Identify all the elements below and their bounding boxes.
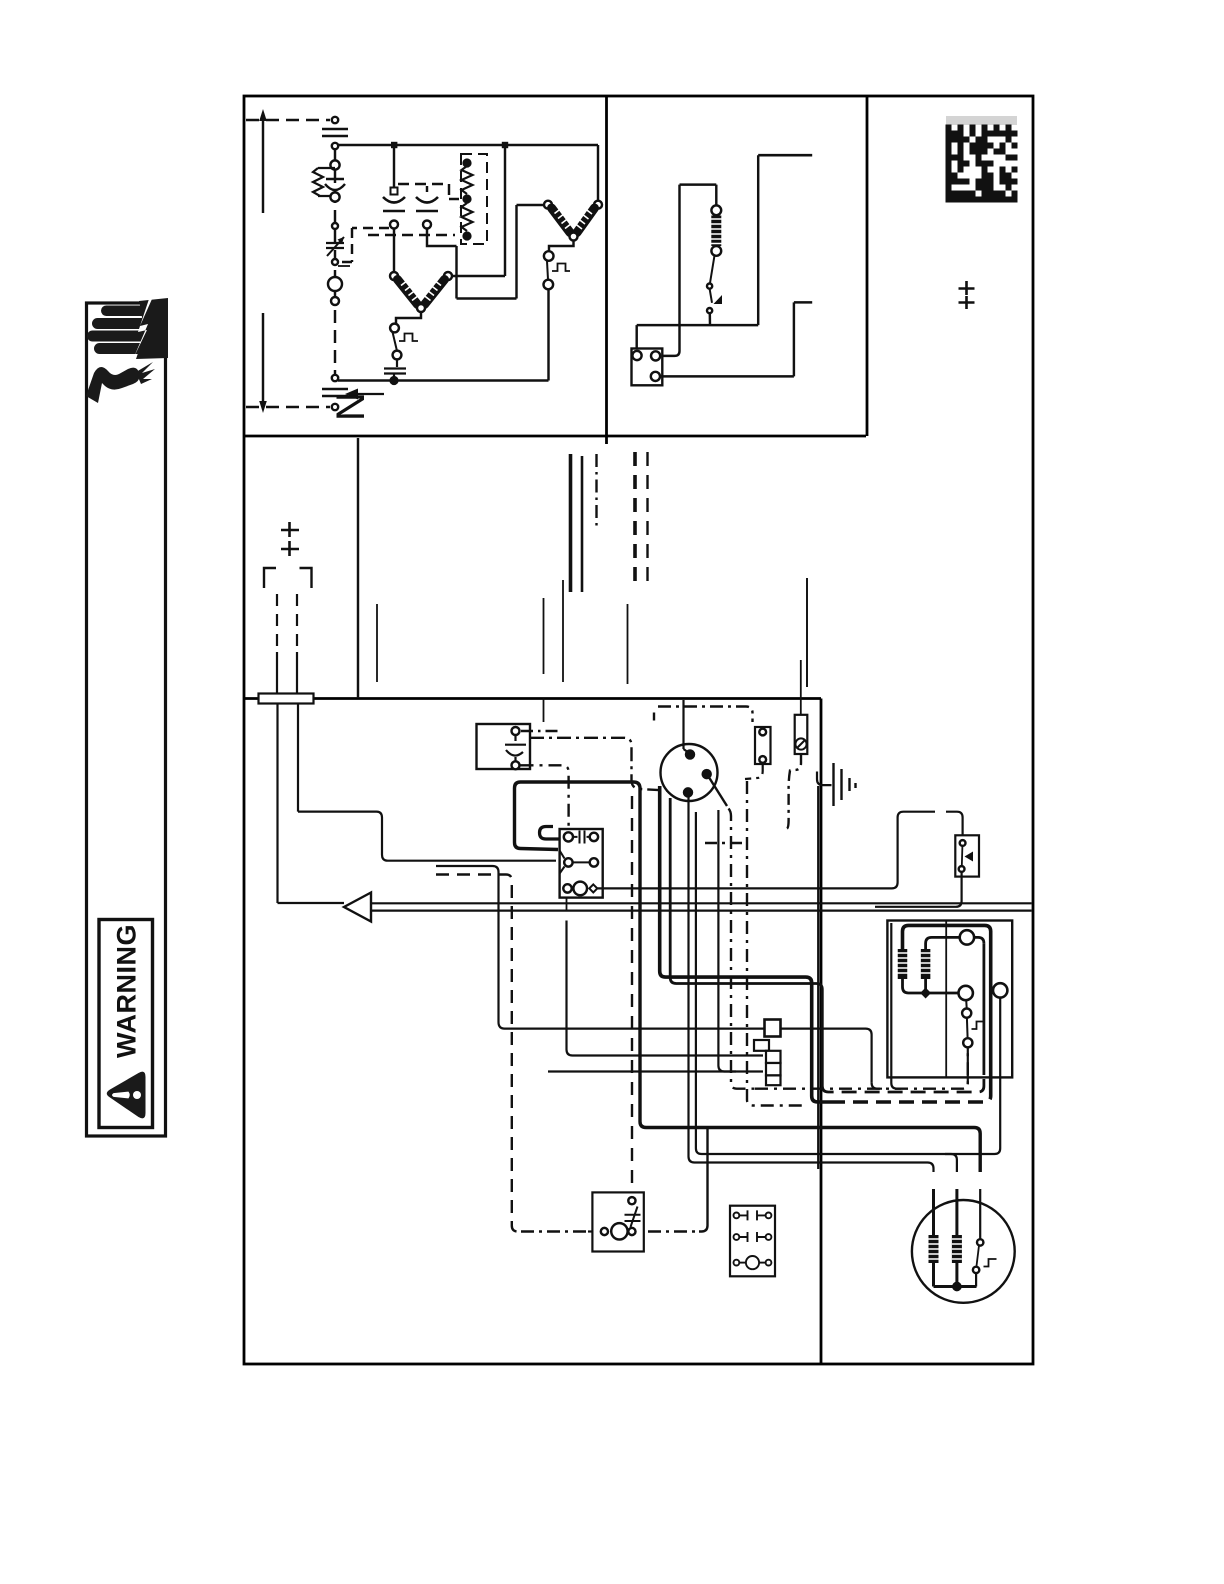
arrow shaft line 2: [371, 909, 1032, 911]
wire stub: [627, 604, 629, 684]
valve terminal right: [703, 770, 711, 778]
dagger marks near barcode: [959, 281, 975, 309]
transformer switch reset mark: [972, 1022, 985, 1030]
manual reset mark: [399, 334, 418, 342]
board fork symbol: [560, 851, 566, 874]
overload switch terminal top: [390, 324, 399, 333]
wire winding junction to overload switch: [396, 312, 421, 323]
igniter coil terminal top: [711, 205, 721, 215]
right riser of ignition circuit: [757, 155, 759, 325]
board terminal top-left: [564, 832, 573, 841]
interconnect wire stub: [357, 438, 359, 698]
aux limit bottom lead to shaft: [875, 872, 962, 907]
motor switch contact bottom: [973, 1267, 979, 1273]
flame sensor contact bottom: [707, 308, 712, 313]
blower motor winding terminal left: [390, 272, 398, 280]
flame sensor top lead: [800, 660, 802, 715]
heat kit resistor 1: [462, 166, 473, 194]
wire stub above ground: [806, 578, 808, 687]
dash-dot loop over valve: [658, 707, 753, 723]
junction dot: [391, 142, 397, 148]
stub to section edge (top): [758, 154, 812, 157]
small terminal: [331, 297, 339, 305]
secondary top right lead: [974, 937, 984, 943]
run capacitor 2 curved plate: [416, 197, 438, 203]
valve terminal top: [686, 751, 694, 759]
dash-dot wire cap top to valve: [521, 730, 560, 732]
board contact ticks: [574, 831, 590, 844]
divider: between line-voltage and ignition schematics: [605, 96, 608, 444]
thermostat row 1: [734, 1210, 772, 1220]
run capacitor 1 terminal: [391, 188, 398, 195]
flame sensor component box: [795, 715, 808, 754]
ignition bottom rail: [637, 324, 759, 326]
limit terminal: [330, 192, 339, 201]
disconnect plates (bottom): [322, 389, 348, 396]
lead from terminal bar to board: [298, 704, 556, 861]
board terminal top-right: [590, 833, 598, 841]
run capacitor 2 straight plate: [416, 210, 438, 213]
igniter relay loop top: [680, 185, 717, 206]
run capacitor 1 curved plate: [383, 197, 405, 203]
igniter terminal top: [759, 729, 766, 736]
relay terminal top-left: [632, 351, 641, 360]
motor common junction dot: [953, 1283, 960, 1290]
arrow shaft line 1: [371, 902, 1032, 904]
outer border of wiring diagram: [244, 96, 1033, 1364]
heat kit junction top: [464, 160, 471, 167]
dagger 2 (top right): [959, 296, 975, 309]
dimension line upper segment with up arrow: [262, 121, 264, 213]
relay terminal top-right: [651, 351, 660, 360]
transformer inside-left wire: [891, 923, 901, 1089]
transformer switch lead: [965, 1000, 968, 1008]
limit switch terminal bottom: [544, 280, 554, 290]
blower interlock switch box: [592, 1192, 643, 1251]
wire stub: [376, 604, 378, 682]
WARNING inner box: [99, 920, 153, 1128]
secondary bottom terminal: [959, 986, 973, 1000]
gas valve circle: [661, 744, 718, 801]
field wiring dashed line (top): [246, 119, 330, 121]
inducer winding junction: [570, 233, 578, 241]
flame switch blade: [710, 256, 715, 284]
interlock terminal top: [628, 1197, 635, 1204]
igniter terminal bottom: [759, 756, 766, 763]
motor lead mid: [955, 1189, 958, 1236]
inducer coil right: [576, 208, 595, 233]
interlock terminal right: [628, 1228, 635, 1235]
dimension line lower segment with down arrow: [262, 313, 264, 401]
wire stub: [562, 580, 564, 682]
limit switch terminal top: [544, 251, 554, 261]
bushing terminal: [332, 143, 338, 149]
warning label outer box: [87, 303, 166, 1136]
interlock terminal left: [601, 1228, 608, 1235]
board terminal bottom-left: [563, 884, 571, 892]
dagger marks (left): [281, 522, 299, 556]
field wiring arrow (hollow): [344, 893, 371, 922]
interlock coil terminal: [611, 1223, 627, 1239]
motor switch blade: [977, 1246, 980, 1267]
board terminal mid-right: [590, 858, 598, 866]
bottom junction diamond: [920, 988, 931, 999]
finger 3: [87, 331, 153, 342]
wire bus corner down to inducer winding: [597, 145, 599, 200]
wire loop over relay (thick): [515, 782, 981, 1172]
finger 2: [92, 318, 154, 329]
limit control terminal: [330, 160, 339, 169]
flame sensor contact top: [707, 284, 712, 289]
blower winding coil right: [424, 280, 445, 305]
blower winding coil left: [398, 280, 419, 305]
run capacitor box: [477, 724, 531, 769]
overload switch blade: [393, 332, 398, 351]
junction dot: [502, 142, 508, 148]
capacitor symbol: [505, 735, 526, 761]
igniter lead down: [745, 764, 763, 779]
heat kit dashed enclosure: [461, 154, 487, 244]
u-turn squiggle: [540, 827, 560, 840]
transformer switch blade: [966, 1018, 969, 1038]
flame sensor diagonal with flag: [710, 289, 712, 303]
interlock switch blade and bars: [625, 1207, 641, 1228]
valve terminal bottom: [684, 788, 692, 796]
transformer box: [887, 921, 1012, 1078]
transformer primary loop (thick): [903, 925, 991, 1090]
neutral bus wire: [338, 379, 549, 382]
dashed stub: [646, 452, 648, 590]
capacitor terminal bottom: [512, 761, 520, 769]
neutral arrow: [358, 393, 384, 395]
wire loop lower tail to relay: [515, 843, 559, 850]
transformer switch bottom lead: [967, 1047, 969, 1084]
small terminal: [332, 223, 338, 229]
dashed link cap corner: [449, 184, 459, 199]
heat kit junction bottom: [464, 233, 471, 240]
aux limit terminal top: [960, 840, 966, 846]
inducer winding terminal left: [544, 201, 552, 209]
motor feed mid horizontal: [696, 812, 1000, 1154]
limit switch blade: [547, 261, 548, 280]
divider: bottom of top schematic row: [244, 435, 866, 438]
thermostat row 3: [734, 1256, 772, 1269]
datamatrix scan smudge: [946, 116, 1017, 125]
L1 bus wire: [338, 144, 598, 147]
auxiliary limit switch box: [955, 835, 979, 876]
control board block: [560, 829, 603, 898]
door switch round terminal: [328, 277, 342, 291]
secondary top lead: [926, 937, 960, 949]
thermostat row 2: [734, 1232, 772, 1242]
bushing terminal (bottom 2): [332, 404, 338, 410]
motor coil left: [929, 1235, 939, 1263]
wire sensor to bottom rail: [709, 313, 712, 325]
240v feed wire continues dashed under transformer: [830, 1090, 991, 1102]
divider: top of control section: [244, 697, 821, 700]
second fuse wire: [548, 1070, 763, 1072]
thermostat terminal block: [730, 1206, 775, 1277]
R wire vertical tail: [872, 1083, 882, 1089]
finger 4: [94, 343, 154, 354]
motor switch reset mark: [984, 1259, 997, 1267]
heat kit junction mid: [464, 196, 471, 203]
board terminal bottom-right (diamond): [589, 884, 597, 892]
transformer primary coil: [898, 949, 908, 979]
motor coil mid: [952, 1235, 962, 1263]
dash-dot to interlock: [521, 1230, 588, 1232]
right coil bottom lead: [924, 979, 927, 990]
frayed cable: [86, 367, 139, 403]
relay terminal bottom-right: [651, 372, 660, 381]
board fork wire: [573, 861, 590, 863]
ground wire along border: [817, 786, 819, 1169]
ground connection bend: [817, 772, 832, 786]
wire limit switch to neutral bus: [547, 290, 549, 381]
motor switch lead: [975, 1273, 977, 1287]
flame sensor symbol: [795, 738, 806, 749]
dashed drop to door interlock: [631, 796, 633, 1196]
thick line-voltage stub: [569, 454, 573, 592]
bushing terminal (bottom): [332, 375, 338, 381]
dash-dot link near valve: [705, 842, 742, 844]
dashed thermostat wire: [436, 875, 521, 1232]
spark gap / varistor symbol: [326, 243, 344, 248]
transformer box inner divider: [945, 921, 947, 1078]
riser to fuse wire: [718, 810, 736, 1072]
wire cap1 down to winding terminal: [393, 228, 395, 272]
run capacitor 2 stub: [426, 186, 428, 192]
run capacitor 2 lower terminal: [423, 221, 431, 229]
flame sensor bottom lead dash-dot: [787, 754, 801, 829]
divider: right edge of ignition schematic: [866, 96, 869, 436]
wire board left arc down (to R line): [436, 866, 872, 1083]
run capacitor 1 straight plate: [383, 210, 405, 213]
field wiring dashed line (bottom): [246, 406, 330, 408]
dashed link cap area top: [398, 183, 449, 185]
transformer switch contact bottom: [963, 1038, 972, 1047]
blower motor circle: [912, 1200, 1015, 1303]
wire junction to limit switch: [549, 241, 574, 252]
relay stub to fuse wire: [567, 921, 764, 1056]
dashed supply conductor L1: [334, 150, 336, 378]
overload switch terminal bottom: [393, 351, 402, 360]
igniter coil terminal bottom: [711, 246, 721, 256]
second dashed riser: [747, 781, 806, 1106]
aux limit flag: [965, 852, 974, 862]
transformer secondary coil: [921, 949, 931, 979]
aux limit blade: [961, 846, 964, 866]
warning triangle icon with exclamation: [107, 1072, 146, 1119]
thermal overload plates: [384, 359, 406, 377]
ground symbol bars: [832, 763, 834, 806]
board terminal bottom-center: [573, 882, 587, 896]
capacitor terminal top: [512, 727, 520, 735]
secondary bottom lead: [903, 978, 959, 993]
heat kit resistor 2: [462, 203, 473, 231]
wire winding right to L1 junction: [452, 148, 505, 276]
valve top lead: [684, 700, 690, 753]
capacitor plate: [326, 178, 344, 180]
neutral bus junction dot: [391, 377, 398, 384]
valve bottom drop: [689, 796, 707, 1162]
wire bus to capacitor: [393, 148, 395, 188]
limit reset mark: [552, 264, 570, 272]
motor lead right: [979, 1189, 981, 1239]
palm and wrist: [136, 298, 168, 359]
wire relay to right stub: [660, 302, 812, 376]
capacitor curved plate: [325, 184, 345, 190]
dashed leads to terminal bar: [277, 594, 297, 648]
board bottom stub: [566, 898, 568, 911]
dashed wire cap bottom to relay: [521, 765, 569, 831]
motor common bar: [934, 1263, 977, 1287]
dashed link cap bottoms: [368, 234, 455, 236]
fuse block offset cell: [754, 1040, 769, 1051]
inducer coil left: [552, 208, 572, 233]
secondary top terminal: [960, 930, 974, 944]
motor feed mid branch down: [945, 1154, 957, 1172]
low voltage terminal bar: [259, 694, 314, 704]
lead from terminal bar to arrow: [278, 704, 345, 904]
svg-text:WARNING: WARNING: [112, 924, 142, 1058]
motor lead left: [932, 1189, 935, 1236]
blower motor winding terminal right: [444, 272, 452, 280]
fuse block cells: [766, 1051, 781, 1063]
lightning bolt (white cutout): [134, 299, 152, 357]
ignition control relay box: [632, 349, 663, 386]
dash-dot from interlock to riser: [648, 1230, 699, 1232]
resistor (heater element): [313, 168, 335, 196]
inducer winding terminal right: [594, 201, 602, 209]
disconnect plates (top): [322, 129, 348, 136]
leads to terminal bar: [277, 652, 297, 693]
igniter component box: [755, 727, 771, 764]
shock-hazard hand icon: [86, 298, 168, 403]
dash-dot stub: [595, 454, 597, 530]
wire cap2 to blower winding via S-bend: [427, 205, 544, 299]
low-voltage bracket: [264, 568, 312, 588]
wire stub: [543, 598, 545, 674]
240v feed wire (thick): [660, 786, 830, 1102]
dagger 1 (top right): [959, 281, 975, 295]
small terminal with tick: [332, 259, 338, 265]
divider: right edge of control section: [820, 699, 823, 1365]
aux limit terminal bottom: [959, 866, 965, 872]
120v feed wire: [670, 798, 822, 1086]
24v dashed bus under transformer: [755, 1047, 968, 1088]
24v dashed bus riser: [729, 809, 756, 1089]
wire stub right: [806, 578, 808, 687]
board fork terminal: [564, 858, 572, 866]
valve lever: [708, 775, 728, 806]
igniter relay loop wire: [661, 185, 680, 356]
left drop to relay box: [635, 325, 637, 350]
igniter coil: [711, 216, 722, 247]
finger 1: [101, 306, 158, 317]
blower winding junction: [417, 304, 425, 312]
run capacitor 1 lower terminal: [390, 221, 398, 229]
wire board to limit switch (long): [598, 812, 936, 889]
line-voltage stub: [581, 456, 584, 592]
motor feed left horizontal: [706, 1163, 934, 1173]
stub to capacitor box top: [543, 699, 545, 723]
thick dashed stub: [633, 452, 637, 586]
motor switch contact top: [977, 1239, 983, 1245]
bushing terminal (top): [332, 117, 338, 123]
transformer switch contact top: [962, 1009, 971, 1018]
fuse block cell top: [765, 1020, 781, 1037]
transformer right terminal: [993, 983, 1007, 997]
frayed wire tips: [136, 362, 155, 384]
svg-text:N: N: [329, 392, 373, 421]
datamatrix barcode: [946, 125, 1018, 203]
dashed link to switch: [341, 228, 389, 262]
